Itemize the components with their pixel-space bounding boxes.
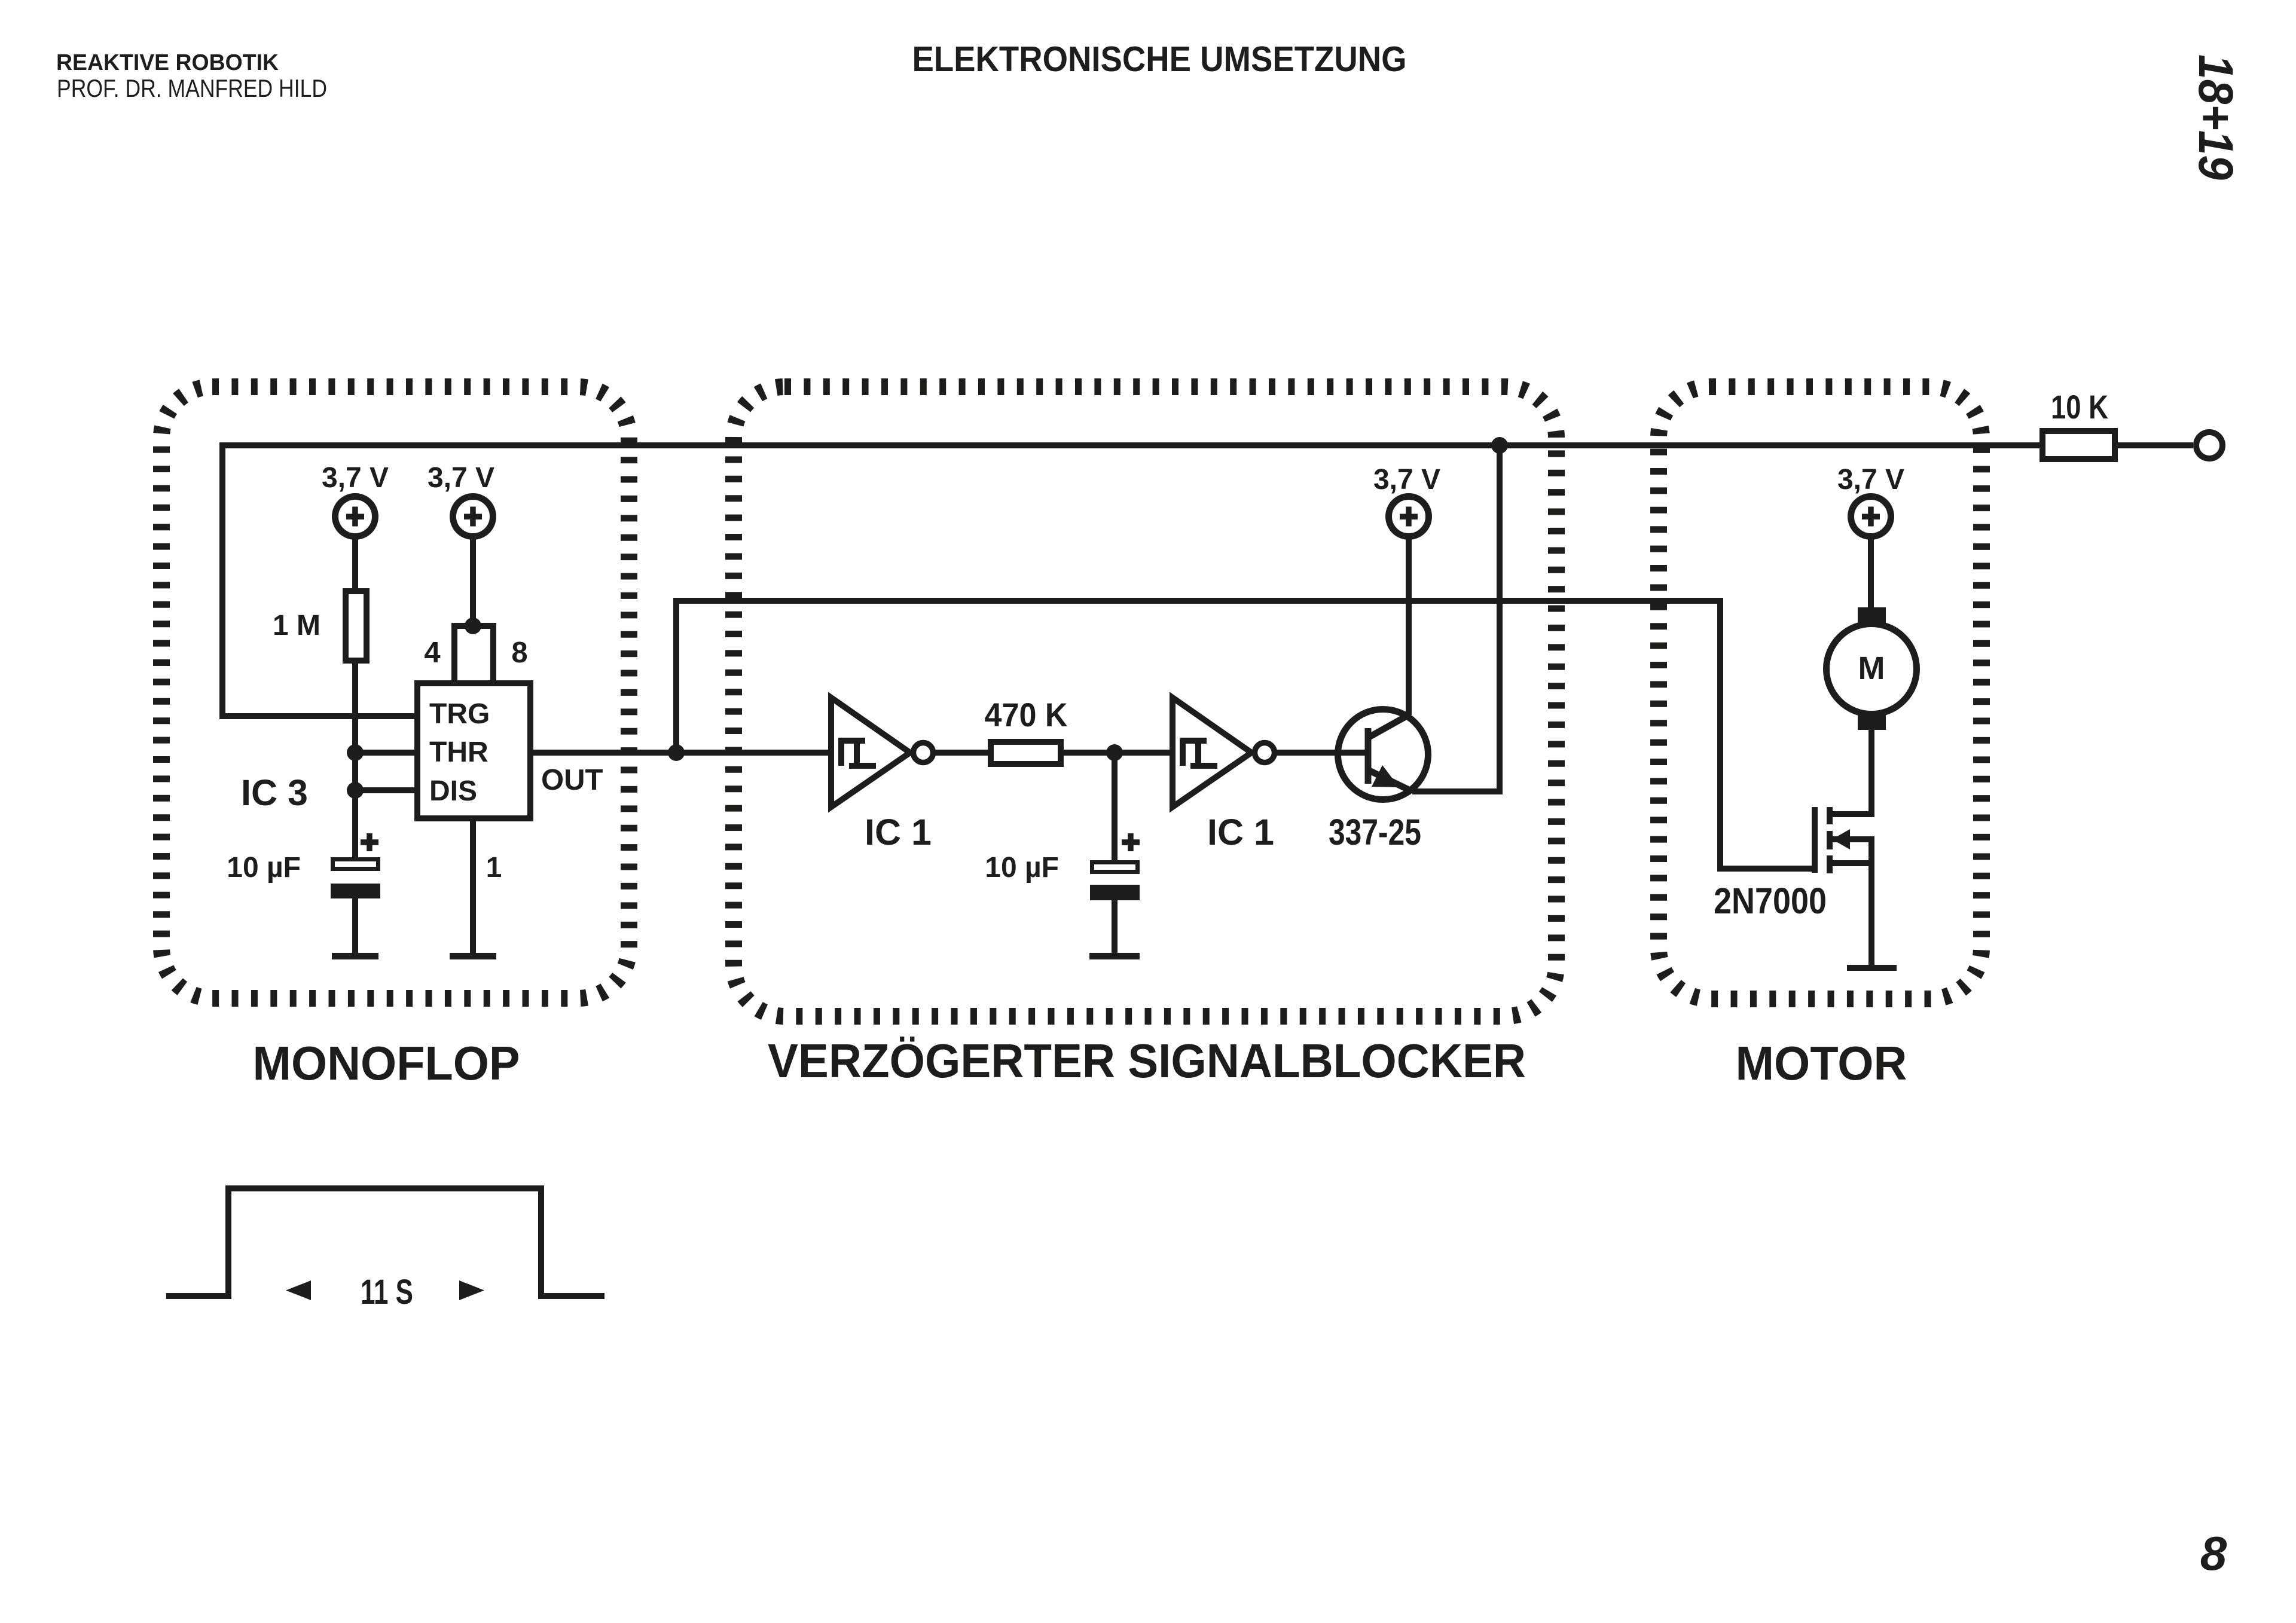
svg-text:8: 8: [511, 637, 527, 669]
resistor 10 K: [2042, 388, 2115, 459]
arrow right: [459, 1280, 484, 1300]
wire emitter to rail: [1412, 445, 1500, 791]
resistor 470 K: [985, 696, 1068, 764]
inverter IC 1 (first): [831, 698, 933, 807]
transistor Q2 2N7000 mosfet: [1815, 807, 1871, 873]
svg-text:8: 8: [2200, 1527, 2227, 1580]
ground (motor): [1847, 965, 1897, 971]
label IC 3: [241, 772, 308, 813]
svg-text:10 µF: 10 µF: [227, 852, 301, 884]
transistor Q1 337-25: [1275, 710, 1428, 800]
wire collector to supply: [1406, 536, 1412, 715]
supply 3,7 V (motor): [1837, 464, 1904, 607]
pin 4 label: [424, 637, 440, 669]
supply 3,7 V (signalblocker): [1373, 464, 1440, 537]
wire DIS: [355, 787, 417, 793]
capacitor C1 10 uF: [227, 833, 380, 898]
ground (under pin 1): [450, 953, 496, 959]
wire THR: [355, 750, 417, 756]
svg-text:IC 3: IC 3: [241, 772, 308, 813]
wire junction to cap2: [1112, 753, 1118, 860]
label IC 1 (first): [865, 812, 932, 852]
wire cap2 to ground: [1112, 900, 1118, 953]
svg-text:MOTOR: MOTOR: [1736, 1037, 1907, 1090]
header author: [57, 74, 327, 102]
svg-text:10 K: 10 K: [2051, 388, 2108, 426]
wire top rail: [222, 442, 2193, 448]
supply 3,7 V (monoflop left): [322, 462, 389, 588]
dashed box VERZOEGERTER SIGNALBLOCKER: [734, 387, 1556, 1016]
wire OUT row: [530, 750, 831, 756]
inverter IC 1 (second): [1173, 698, 1275, 807]
wire cap to ground: [352, 898, 358, 953]
node OUT junction: [668, 744, 685, 761]
motor M1: [1827, 607, 1917, 730]
svg-text:3,7 V: 3,7 V: [1837, 464, 1904, 496]
node junction on rail: [1491, 437, 1508, 454]
title MOTOR: [1736, 1037, 1907, 1090]
svg-text:18+19: 18+19: [2188, 54, 2243, 180]
svg-text:PROF. DR. MANFRED HILD: PROF. DR. MANFRED HILD: [57, 74, 327, 102]
label 2N7000: [1714, 881, 1827, 921]
svg-text:470 K: 470 K: [985, 696, 1068, 733]
output terminal: [2196, 432, 2222, 459]
title MONOFLOP: [253, 1037, 520, 1090]
ground (monoflop cap): [332, 953, 378, 959]
wire pin 1 to ground: [470, 818, 476, 953]
svg-text:1 M: 1 M: [273, 610, 320, 641]
wire resistor to inverter2: [1061, 750, 1173, 756]
svg-text:11 S: 11 S: [361, 1273, 413, 1312]
svg-text:TRG: TRG: [429, 698, 490, 730]
svg-text:MONOFLOP: MONOFLOP: [253, 1037, 520, 1090]
svg-text:DIS: DIS: [429, 775, 477, 807]
label IC 1 (second): [1207, 812, 1274, 852]
title VERZOEGERTER SIGNALBLOCKER: [768, 1034, 1526, 1087]
node DIS junction: [347, 782, 364, 799]
capacitor C2 10 uF: [985, 833, 1140, 900]
svg-text:337-25: 337-25: [1329, 812, 1421, 852]
svg-text:2N7000: 2N7000: [1714, 881, 1827, 921]
svg-text:4: 4: [424, 637, 440, 669]
dashed box MONOFLOP: [161, 387, 629, 998]
wire inverter1 to resistor: [933, 750, 991, 756]
svg-text:IC 1: IC 1: [865, 812, 932, 852]
svg-text:10 µF: 10 µF: [985, 852, 1059, 884]
pin 1 label: [486, 852, 502, 884]
supply 3,7 V (monoflop right): [428, 462, 494, 626]
IC U1 555 timer (IC 3) with pin block 4/8: [417, 618, 530, 818]
wire mosfet source to ground: [1868, 863, 1874, 965]
svg-text:3,7 V: 3,7 V: [1373, 464, 1440, 496]
svg-text:THR: THR: [429, 736, 488, 768]
wire motor to mosfet drain: [1833, 730, 1871, 814]
page number top right 18+19: [2188, 54, 2243, 180]
pin 8 label: [511, 637, 527, 669]
wire inverter2 to transistor base: [1275, 750, 1365, 756]
wire feedback riser to gate: [676, 601, 1815, 869]
arrow left: [286, 1280, 311, 1300]
svg-text:VERZÖGERTER SIGNALBLOCKER: VERZÖGERTER SIGNALBLOCKER: [768, 1034, 1526, 1087]
page title: [912, 39, 1407, 79]
svg-text:3,7 V: 3,7 V: [322, 462, 389, 494]
svg-text:REAKTIVE ROBOTIK: REAKTIVE ROBOTIK: [56, 50, 279, 75]
wire rail left drop to TRG: [222, 442, 417, 716]
label OUT: [541, 764, 603, 796]
label 337-25: [1329, 812, 1421, 852]
svg-text:1: 1: [486, 852, 502, 884]
waveform pulse: [166, 1188, 604, 1296]
label 11 S: [361, 1273, 413, 1312]
ground (signalblocker cap): [1089, 953, 1140, 959]
svg-text:M: M: [1858, 650, 1885, 686]
wire monoflop center column: [352, 588, 358, 857]
header course title: [56, 50, 279, 75]
node RC junction: [1106, 744, 1123, 761]
svg-text:IC 1: IC 1: [1207, 812, 1274, 852]
svg-text:ELEKTRONISCHE UMSETZUNG: ELEKTRONISCHE UMSETZUNG: [912, 39, 1407, 79]
resistor 1 M: [273, 591, 367, 661]
node THR junction: [347, 744, 364, 761]
page number bottom right 8: [2200, 1527, 2227, 1580]
dashed box MOTOR: [1659, 387, 1981, 999]
svg-text:3,7 V: 3,7 V: [428, 462, 494, 494]
svg-text:OUT: OUT: [541, 764, 603, 796]
